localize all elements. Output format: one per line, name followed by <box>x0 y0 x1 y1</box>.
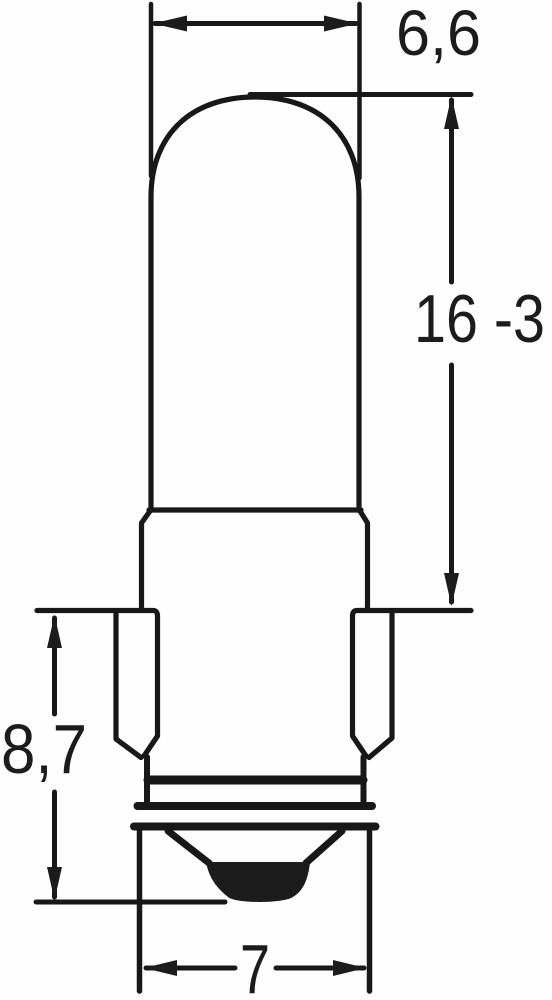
arrowhead 16-3 down <box>444 573 459 606</box>
solder contact blob <box>206 862 310 902</box>
bulb glass envelope (tube with domed top) <box>151 97 359 510</box>
8,7 dimension shaft lower <box>52 792 57 897</box>
glass collar right side <box>360 511 368 608</box>
svg-text:8,7: 8,7 <box>1 710 87 788</box>
svg-text:7: 7 <box>240 930 270 1000</box>
shell right side / extension line for 7 <box>367 827 373 991</box>
arrowhead 8,7 down <box>47 867 62 900</box>
shell left side / extension line for 7 <box>137 827 143 991</box>
glass collar top line <box>149 507 361 512</box>
base wall outer left <box>116 612 141 758</box>
groove line A <box>148 776 363 785</box>
reference line top of bulb (16-3 upper) <box>250 92 471 97</box>
groove line B <box>138 802 373 810</box>
flange top right segment (also 16-3 bottom reference line) with inner wall right <box>353 611 472 757</box>
arrowhead 8,7 up <box>47 615 62 648</box>
arrowhead 7 right <box>333 960 366 976</box>
16-3 dimension shaft upper <box>449 100 454 282</box>
groove line C <box>134 823 376 831</box>
base stub right <box>361 757 367 806</box>
glass collar left side <box>142 511 151 608</box>
bottom dimension line 7 right part <box>276 966 364 971</box>
top extension line left <box>149 4 154 176</box>
svg-text:16 -3: 16 -3 <box>414 281 545 357</box>
arrowhead 7 left <box>144 960 177 976</box>
16-3 dimension shaft lower <box>449 365 454 602</box>
flange top left segment (also 8,7 reference line) with inner wall left <box>37 611 158 757</box>
8,7 dimension shaft upper <box>52 618 57 714</box>
arrowhead 16-3 up <box>444 96 459 129</box>
insulator funnel right diagonal <box>306 831 342 863</box>
bottom dimension line 7 left part <box>146 966 235 971</box>
top dimension line 6,6 <box>155 21 356 26</box>
top extension line right <box>357 4 362 178</box>
base stub left <box>144 757 150 806</box>
insulator funnel left diagonal <box>168 831 209 863</box>
svg-text:6,6: 6,6 <box>396 0 481 69</box>
base wall outer right <box>369 612 392 758</box>
arrowhead 6,6 right <box>324 16 358 32</box>
8,7 bottom reference line (contact underside) <box>36 900 225 905</box>
arrowhead 6,6 left <box>153 16 187 32</box>
